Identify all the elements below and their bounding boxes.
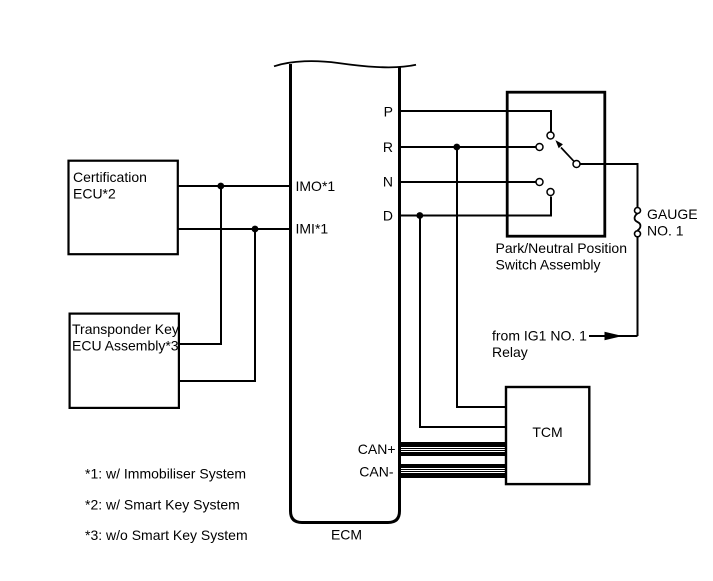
ECM body outline U1 [291,64,400,523]
wire: from IG1 relay feed with arrow [589,335,638,337]
wire R: ECM to switch contact [400,146,536,148]
svg-text:IMO*1: IMO*1 [296,178,336,194]
wire: R junction down to TCM [457,147,505,407]
svg-text:CAN+: CAN+ [358,441,396,457]
svg-text:*3: w/o Smart Key System: *3: w/o Smart Key System [85,527,248,543]
svg-text:NO. 1: NO. 1 [647,223,684,239]
svg-text:N: N [383,174,393,190]
junction on D wire [416,212,423,219]
svg-text:GAUGE: GAUGE [647,206,698,222]
wire P: ECM to switch contact [400,111,552,132]
switch contact P [547,132,554,139]
ECM top break wavy line [274,61,416,67]
svg-text:D: D [383,208,393,224]
svg-text:R: R [383,139,393,155]
junction on IMI wire [252,226,259,233]
svg-text:*1: w/ Immobiliser System: *1: w/ Immobiliser System [85,466,246,482]
wire: gauge fuse down to IG1 feed corner [637,237,639,337]
Park/Neutral Position Switch Assembly box [507,92,605,236]
switch contact N [536,179,543,186]
svg-text:P: P [384,104,393,120]
junction on IMO wire [217,183,224,190]
wire: Transponder Key ECU upper to IMO junction [179,186,221,344]
svg-text:*2: w/ Smart Key System: *2: w/ Smart Key System [85,497,240,513]
wire: switch common to gauge fuse [580,164,638,208]
svg-text:CAN-: CAN- [359,464,394,480]
svg-text:Switch Assembly: Switch Assembly [496,257,601,273]
wire IMI: Certification ECU to ECM [178,228,291,230]
svg-text:ECU Assembly*3: ECU Assembly*3 [72,338,179,354]
svg-text:ECM: ECM [331,527,362,543]
svg-text:TCM: TCM [532,424,562,440]
wire N: ECM to switch contact [400,181,536,183]
svg-text:Certification: Certification [73,169,147,185]
circuit breaker GAUGE NO.1 [635,208,641,214]
junction on R wire [453,144,460,151]
CAN- bus bundle ECM to TCM [400,464,505,478]
switch common pole contact [573,161,580,168]
switch contact D [547,189,554,196]
wire IMO: Certification ECU to ECM [178,185,291,187]
svg-text:Transponder Key: Transponder Key [72,321,179,337]
wire D: ECM to switch contact [400,197,552,216]
svg-text:IMI*1: IMI*1 [296,221,329,237]
svg-text:Park/Neutral Position: Park/Neutral Position [496,240,628,256]
TCM box [506,387,589,484]
Transponder Key ECU box [70,314,179,408]
Certification ECU box [69,161,178,255]
switch arm with arrowhead [561,148,574,162]
CAN+ bus bundle ECM to TCM [400,442,505,456]
svg-text:Relay: Relay [492,344,528,360]
wire: Transponder Key ECU lower to IMI junction [179,229,255,381]
wire: D junction down to TCM [420,216,505,428]
svg-text:from IG1 NO. 1: from IG1 NO. 1 [492,328,587,344]
svg-text:ECU*2: ECU*2 [73,186,116,202]
switch contact R [536,144,543,151]
